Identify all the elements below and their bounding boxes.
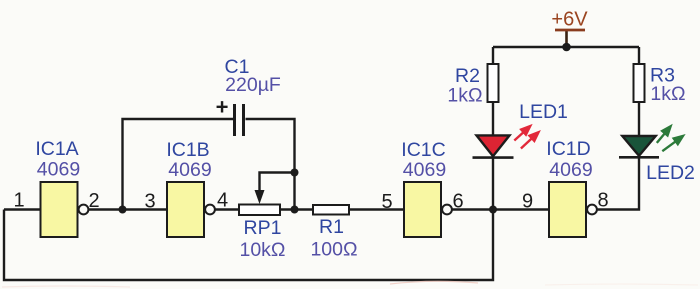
wire: R3 to LED2 xyxy=(638,102,640,137)
junction node at IC1C output xyxy=(489,206,497,214)
svg-text:9: 9 xyxy=(522,191,533,213)
wire: IC1A out to IC1B in xyxy=(89,208,167,210)
potentiometer RP1 xyxy=(239,173,295,262)
svg-text:220µF: 220µF xyxy=(225,74,281,96)
svg-text:LED1: LED1 xyxy=(519,101,568,123)
svg-text:4069: 4069 xyxy=(549,159,592,181)
junction node on rail xyxy=(562,43,571,52)
svg-text:8: 8 xyxy=(597,190,608,212)
svg-text:1: 1 xyxy=(13,190,24,212)
svg-text:5: 5 xyxy=(381,191,392,213)
LED1 xyxy=(473,101,568,158)
wire: R2 to top rail xyxy=(492,47,494,64)
wire: IC1B out to RP1 xyxy=(215,208,239,210)
wire: top supply rail xyxy=(493,46,639,48)
svg-text:100Ω: 100Ω xyxy=(310,239,357,261)
inverter IC1B xyxy=(166,139,215,237)
power +6V terminal xyxy=(551,9,588,48)
svg-text:+6V: +6V xyxy=(551,9,588,31)
svg-text:LED2: LED2 xyxy=(646,162,695,184)
svg-text:+: + xyxy=(216,95,229,120)
wire: IC1A input segment xyxy=(4,208,41,210)
wire: RP1 to R1 xyxy=(280,208,313,210)
inverter IC1D xyxy=(546,138,597,237)
svg-text:3: 3 xyxy=(144,191,155,213)
svg-text:R1: R1 xyxy=(319,216,344,238)
wire: LED2 down to IC1D output corner xyxy=(598,156,640,210)
svg-text:4: 4 xyxy=(217,190,228,212)
inverter IC1A xyxy=(35,138,88,237)
wire: IC1C out to IC1D in xyxy=(452,208,549,210)
wire: R1 to IC1C xyxy=(349,208,404,210)
svg-text:1kΩ: 1kΩ xyxy=(650,83,685,105)
resistor R1 xyxy=(310,205,357,261)
resistor R3 xyxy=(634,64,686,105)
junction node at IC1A output xyxy=(119,206,127,214)
wire: LED1 to R2 xyxy=(492,102,494,136)
wire: rail down to R3 xyxy=(638,47,640,64)
capacitor C1 xyxy=(216,56,281,136)
inverter IC1C xyxy=(401,139,452,237)
junction node RP1 output xyxy=(291,206,299,214)
svg-text:10kΩ: 10kΩ xyxy=(239,239,285,261)
wire: feedback left vertical + bottom + right vertical xyxy=(4,210,493,281)
svg-text:IC1A: IC1A xyxy=(35,138,78,160)
svg-text:IC1B: IC1B xyxy=(166,139,209,161)
wire: branch up to capacitor, across, and down to RP1 output xyxy=(123,119,234,210)
svg-text:RP1: RP1 xyxy=(244,217,282,239)
svg-text:4069: 4069 xyxy=(168,159,211,181)
svg-text:IC1D: IC1D xyxy=(546,138,590,160)
resistor R2 xyxy=(447,64,498,107)
LED2 xyxy=(619,126,695,184)
wire: junction up to LED1 xyxy=(492,156,494,210)
svg-text:4069: 4069 xyxy=(403,159,446,181)
svg-text:1kΩ: 1kΩ xyxy=(447,85,482,107)
svg-text:IC1C: IC1C xyxy=(401,139,445,161)
svg-text:4069: 4069 xyxy=(37,159,80,181)
junction node wiper tee xyxy=(291,169,299,177)
